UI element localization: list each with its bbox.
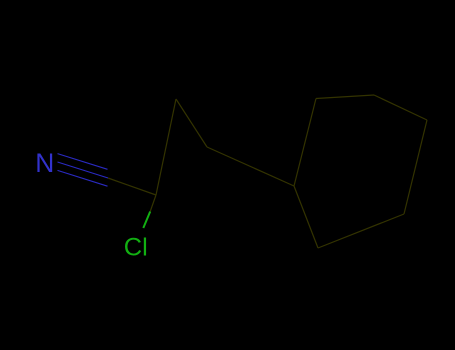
bond C3-C4 [176,99,207,147]
bond C2-C3 [156,99,176,195]
svg-text:Cl: Cl [124,234,148,262]
triple bond N#C1 [58,154,109,187]
ring edge C-D [374,95,427,120]
bond C1-C2 [108,178,156,195]
bond C2-Cl chlorine half [143,212,150,229]
svg-text:N: N [35,148,54,178]
bond C4-ring A [207,147,294,186]
ring edge D-E [404,120,427,214]
bond C2-Cl carbon half [150,195,156,212]
ring edge A-B [294,99,316,187]
ring edge E-F [318,214,404,248]
ring edge B-C [316,95,374,99]
ring edge F-A [294,186,318,248]
